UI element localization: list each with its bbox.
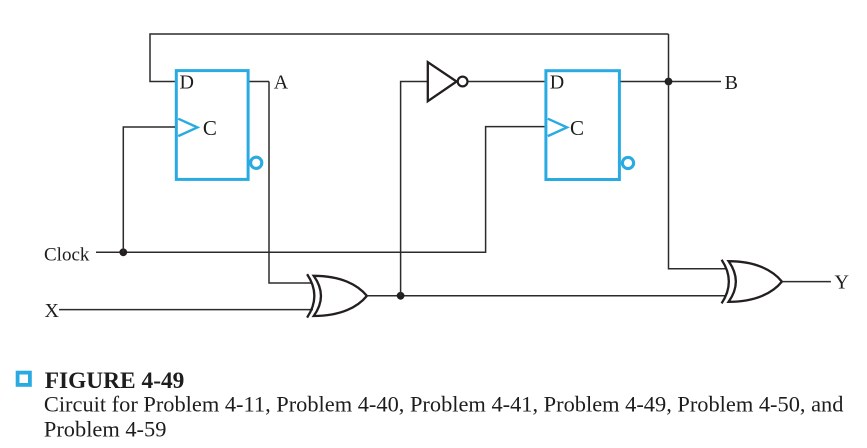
svg-text:Circuit for Problem 4-11, Prob: Circuit for Problem 4-11, Problem 4-40, … (44, 392, 844, 417)
svg-text:FIGURE 4-49: FIGURE 4-49 (45, 368, 185, 394)
wire node B vertical down to XOR2 top input (669, 34, 727, 269)
D flip-flop U2 body (546, 71, 620, 180)
wire U2 Q output to node B and label (621, 81, 722, 83)
wire XOR2 output to Y (782, 281, 831, 283)
svg-text:C: C (203, 116, 217, 140)
XOR gate G1 (307, 274, 367, 317)
wire clock branch up to U1 C input (123, 127, 175, 252)
svg-text:D: D (180, 72, 194, 94)
wire junction up to inverter input (401, 82, 428, 296)
svg-text:A: A (274, 72, 289, 94)
svg-text:Clock: Clock (44, 245, 90, 266)
U2 clock edge indicator (548, 119, 567, 136)
D flip-flop U1 body (176, 71, 248, 180)
svg-text:C: C (570, 116, 584, 140)
wire U1 Q output to corner (250, 81, 270, 83)
junction node XOR1 output (397, 292, 405, 300)
wire feedback from node B along top to FF1 D input (150, 34, 669, 82)
svg-text:Problem 4-59: Problem 4-59 (44, 417, 167, 442)
node B junction (665, 78, 673, 86)
wire X to XOR1 bottom input (59, 309, 313, 311)
U1 Q-bar bubble (251, 157, 262, 168)
wire inverter output to U2 D input (468, 81, 545, 83)
wire XOR1 output across to XOR2 bottom input (367, 295, 726, 297)
wire Clock line to FF2 C input (96, 127, 545, 253)
inverter U3 triangle (428, 62, 457, 101)
caption bullet square (18, 373, 30, 385)
U2 Q-bar bubble (622, 157, 633, 168)
svg-text:Y: Y (835, 271, 849, 293)
svg-text:D: D (550, 72, 564, 94)
svg-text:B: B (725, 72, 738, 94)
junction clock branch (119, 248, 127, 256)
svg-text:X: X (45, 300, 60, 322)
inverter U3 bubble (458, 77, 468, 87)
U1 clock edge indicator (178, 119, 197, 136)
XOR gate G2 (722, 260, 782, 304)
wire node A down to XOR1 top input (269, 82, 312, 284)
